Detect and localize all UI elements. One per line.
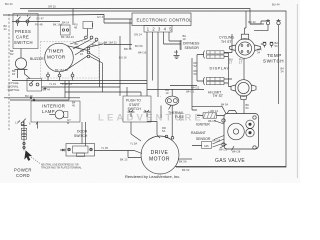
svg-text:MOTOR: MOTOR [47,55,66,60]
svg-text:BK 13: BK 13 [120,158,128,162]
svg-text:BU 16: BU 16 [119,56,127,60]
svg-text:SENSOR: SENSOR [185,46,200,50]
svg-text:TH' ST: TH' ST [213,94,223,98]
svg-text:+ RD 13: + RD 13 [208,109,218,113]
svg-text:YL 43: YL 43 [49,82,56,86]
svg-text:GAS VALVE: GAS VALVE [215,158,245,164]
svg-text:BUZZER: BUZZER [30,57,44,61]
svg-text:WH 22: WH 22 [191,86,200,90]
svg-text:POWER: POWER [14,168,32,173]
svg-text:1 2 3 4 5: 1 2 3 4 5 [147,27,173,32]
svg-text:R2: R2 [10,52,14,56]
svg-text:YL 35: YL 35 [101,146,108,150]
svg-text:SWITCH: SWITCH [128,107,142,111]
svg-text:CORD: CORD [16,173,30,178]
svg-text:DISPLAY: DISPLAY [210,66,230,71]
svg-text:TIMER: TIMER [48,49,64,54]
svg-text:5A: 5A [162,129,165,133]
svg-text:BU 50: BU 50 [135,44,143,48]
svg-text:17: 17 [239,61,242,65]
svg-text:INTERIOR: INTERIOR [42,104,65,109]
svg-text:DOOR: DOOR [77,130,88,134]
svg-text:PRESS: PRESS [15,29,31,34]
svg-text:BK 16A: BK 16A [53,23,62,27]
svg-text:34: 34 [257,51,260,55]
svg-text:OR 20: OR 20 [48,5,56,9]
svg-text:P BK 44: P BK 44 [62,82,72,86]
svg-text:WH 28: WH 28 [232,150,241,154]
svg-text:MOTOR: MOTOR [149,156,170,162]
svg-text:SWITCH: SWITCH [14,40,33,45]
svg-text:SWITCH: SWITCH [263,59,284,64]
svg-text:48: 48 [74,26,77,30]
svg-text:Rendered by LeadVenture, Inc.: Rendered by LeadVenture, Inc. [125,174,180,179]
svg-text:CdS: CdS [204,145,209,148]
svg-text:TEMP: TEMP [267,53,282,58]
svg-text:L1: L1 [15,121,18,125]
svg-text:WH 21: WH 21 [186,90,195,94]
svg-text:54: 54 [246,106,249,110]
svg-text:BK 16A 4X: BK 16A 4X [61,35,74,39]
svg-text:TH' ST: TH' ST [221,40,231,44]
svg-text:WH 16: WH 16 [138,51,147,55]
svg-text:GY 47: GY 47 [97,15,105,19]
svg-text:BU 49: BU 49 [25,94,33,98]
svg-text:40: 40 [72,104,75,108]
svg-text:PU 48: PU 48 [35,23,43,27]
svg-text:WH 26: WH 26 [219,148,228,152]
svg-text:CARE: CARE [16,35,29,40]
svg-text:16A: 16A [75,45,80,49]
svg-text:TRACER AND TIN PLATED TERMINAL: TRACER AND TIN PLATED TERMINAL [41,166,82,169]
svg-text:52: 52 [194,64,197,68]
svg-text:GN: GN [174,50,178,54]
svg-text:RD 42: RD 42 [248,20,256,24]
svg-text:ELECTRONIC CONTROL: ELECTRONIC CONTROL [137,17,193,22]
svg-text:DRIVE: DRIVE [151,150,169,156]
svg-text:44: 44 [4,27,7,31]
svg-text:WH 25: WH 25 [212,139,221,143]
svg-text:SWITCH: SWITCH [8,88,20,92]
svg-text:BK 52: BK 52 [182,168,190,172]
svg-text:SWITCH: SWITCH [74,134,88,138]
svg-text:BR 18: BR 18 [124,47,132,51]
svg-text:NEUTRAL LINE IDENTIFIED BY GR: NEUTRAL LINE IDENTIFIED BY GR [41,163,79,166]
svg-text:53: 53 [194,72,197,76]
svg-text:BU 44: BU 44 [43,88,51,92]
svg-text:17: 17 [229,61,232,65]
svg-text:SENSOR: SENSOR [196,137,211,141]
svg-text:BK 16A 21: BK 16A 21 [104,41,117,45]
svg-text:B4 54: B4 54 [221,103,229,107]
svg-text:GN: GN [180,118,184,122]
svg-text:YL 5A: YL 5A [130,142,137,146]
svg-text:BU 44: BU 44 [5,2,13,6]
svg-text:BU 44: BU 44 [272,3,280,7]
svg-text:BK 16A BK: BK 16A BK [55,68,69,72]
svg-text:54: 54 [275,44,278,48]
svg-text:BA 14: BA 14 [62,21,70,25]
svg-text:16: 16 [80,52,83,56]
svg-text:18: 18 [12,72,15,76]
svg-text:BK 5A: BK 5A [179,160,187,164]
svg-text:34: 34 [281,70,284,74]
svg-text:LAMP: LAMP [42,109,55,114]
svg-text:GN 14: GN 14 [134,33,142,37]
svg-text:BU: BU [92,43,96,47]
svg-text:19: 19 [166,91,169,95]
svg-text:RADIANT: RADIANT [191,131,206,135]
svg-text:19: 19 [183,37,186,41]
svg-text:GY 47: GY 47 [36,17,44,21]
svg-text:IGNITER: IGNITER [196,123,210,127]
